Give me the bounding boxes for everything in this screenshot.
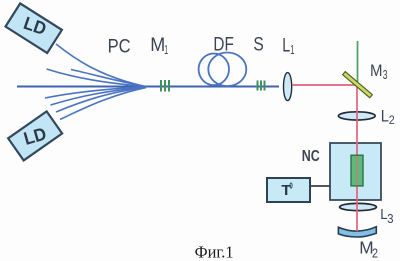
mirror M2 (concave)	[338, 227, 376, 237]
wire: red beam vertical	[356, 85, 358, 231]
svg-text:L: L	[282, 35, 290, 57]
svg-text:L: L	[381, 107, 389, 125]
wire: main fiber line	[17, 86, 279, 88]
wire: red beam horizontal	[292, 84, 357, 86]
crystal (green)	[351, 155, 363, 186]
svg-text:Фиг.1: Фиг.1	[195, 242, 234, 261]
wire: fiber curve D3	[56, 88, 146, 113]
wire: fiber curve D2	[51, 87, 146, 105]
splice M1 ticks	[161, 80, 169, 92]
svg-text:1: 1	[164, 42, 168, 57]
laser diode LD1 (top)	[5, 3, 61, 53]
wire: beam through crystal	[356, 156, 358, 185]
svg-text:3: 3	[387, 211, 393, 226]
thermostat T0 box	[267, 178, 310, 202]
wire: green beam vertical	[357, 41, 359, 85]
svg-text:2: 2	[372, 246, 378, 261]
svg-text:0: 0	[289, 181, 293, 191]
svg-text:NC: NC	[302, 148, 320, 165]
fiber loop DF	[199, 53, 247, 87]
wire: fiber curve U2	[47, 69, 146, 87]
wire: T0 to NC connector	[310, 185, 330, 187]
mirror M3 (dichroic, tilted bar)	[343, 72, 373, 98]
svg-text:M: M	[370, 61, 383, 80]
wire: fiber curve U1 from top LD	[56, 44, 143, 86]
wire: fiber curve D1 from bottom LD	[45, 87, 145, 98]
svg-text:PC: PC	[108, 36, 131, 58]
svg-text:3: 3	[383, 68, 388, 82]
svg-text:S: S	[253, 34, 263, 56]
svg-text:2: 2	[389, 113, 395, 127]
splice S ticks	[258, 81, 265, 91]
nonlinear crystal oven NC box	[330, 143, 381, 200]
laser diode LD2 (bottom)	[8, 111, 62, 160]
lens L3	[340, 203, 377, 210]
svg-text:DF: DF	[213, 34, 233, 56]
lens L1	[284, 73, 292, 101]
lens L2	[338, 112, 375, 120]
wire: fiber curve D4	[60, 88, 146, 120]
wire: fiber curve U3	[71, 70, 146, 87]
svg-text:M: M	[150, 34, 165, 56]
svg-text:1: 1	[290, 42, 294, 57]
